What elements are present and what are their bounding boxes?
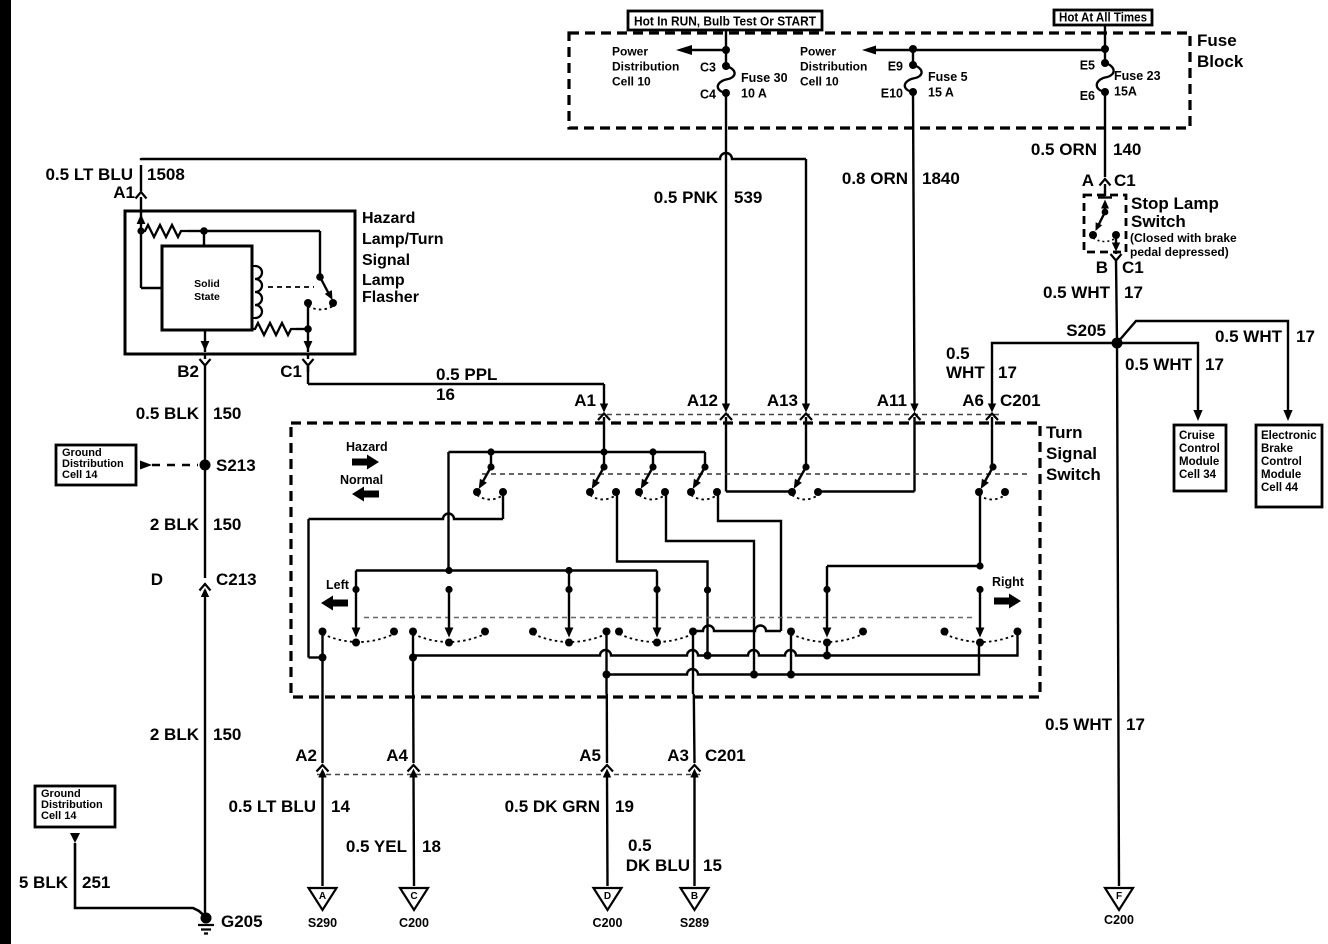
- label 0.5 BLK 150: [136, 404, 242, 423]
- svg-text:A5: A5: [579, 746, 601, 765]
- svg-text:Cell 10: Cell 10: [800, 75, 839, 89]
- svg-text:B: B: [1096, 258, 1108, 277]
- svg-text:E9: E9: [888, 60, 903, 74]
- switch contact set T1 (hazard feed): [473, 452, 507, 500]
- pin label C4: [700, 88, 716, 102]
- contact arc set B2: [409, 628, 489, 643]
- wire: 0.5 PPL 16 (flasher C1 to switch pin A1): [308, 366, 604, 404]
- dashed pivot line (top contacts): [482, 473, 1030, 475]
- svg-text:0.5 DK GRN: 0.5 DK GRN: [505, 797, 600, 816]
- pin A12: [687, 391, 732, 492]
- switch arm B2: [445, 586, 454, 647]
- svg-text:Cell 34: Cell 34: [1179, 469, 1217, 481]
- svg-text:C201: C201: [1000, 391, 1041, 410]
- svg-text:Electronic: Electronic: [1261, 430, 1317, 442]
- svg-text:Cruise: Cruise: [1179, 430, 1215, 442]
- svg-text:A11: A11: [877, 391, 907, 410]
- power distribution cell 10 label (left): [612, 45, 679, 89]
- wire: T1 right contact to left rail: [309, 492, 504, 658]
- svg-text:0.5: 0.5: [946, 344, 970, 363]
- hazard flasher label: [362, 210, 443, 306]
- switch arm B4: [653, 586, 662, 647]
- C201 dashed row (top): [598, 414, 1002, 416]
- svg-text:2 BLK: 2 BLK: [150, 725, 200, 744]
- svg-text:S290: S290: [308, 916, 337, 930]
- svg-text:Signal: Signal: [1046, 444, 1097, 463]
- label 0.5 WHT 17 (EBCM branch): [1215, 327, 1315, 346]
- wire: 5 BLK 251 (ground box to G205): [70, 833, 204, 916]
- fuse 5 value label: [928, 70, 968, 100]
- fuse F30 (C3-C4): [718, 62, 735, 97]
- pin A4: [386, 746, 419, 886]
- contact arc set B6: [941, 628, 1022, 643]
- svg-text:5 BLK: 5 BLK: [19, 873, 69, 892]
- connector pin B C1 (stop lamp): [1096, 252, 1144, 277]
- label 0.5 WHT 17 (bottom): [1045, 715, 1145, 734]
- wire: Hot In RUN feed down to fuse 30: [725, 30, 727, 66]
- stop lamp switch label: [1130, 194, 1237, 259]
- svg-text:0.5 WHT: 0.5 WHT: [1125, 355, 1193, 374]
- label 0.5 WHT 17 (cruise branch): [1125, 355, 1224, 374]
- connector pin A1 (flasher): [113, 183, 146, 211]
- wire: Hot At All Times feed down to fuse 23: [1104, 25, 1106, 63]
- resistor R2 (flasher): [252, 323, 312, 335]
- wire: line B (right-turn rail): [603, 641, 980, 679]
- connector C C200: [399, 888, 429, 930]
- fuse F5 (E9-E10): [905, 61, 922, 96]
- svg-text:pedal depressed): pedal depressed): [1130, 245, 1229, 259]
- svg-text:D: D: [604, 891, 611, 902]
- svg-text:0.5 YEL: 0.5 YEL: [346, 837, 407, 856]
- switch contact set T4: [687, 452, 721, 500]
- svg-text:State: State: [194, 291, 220, 303]
- label 0.5 ORN 140: [1031, 140, 1142, 159]
- svg-text:C1: C1: [1114, 171, 1136, 190]
- svg-text:C213: C213: [216, 570, 257, 589]
- wire: A4 rail down: [412, 632, 415, 764]
- wire: 0.5 ORN 140 (fuse E6 down to stop lamp A): [1104, 92, 1106, 177]
- svg-text:Hot At All Times: Hot At All Times: [1059, 11, 1147, 25]
- label 0.5 WHT 17 (A6 branch): [946, 344, 1017, 382]
- dashed link: ground box to S213: [140, 461, 198, 470]
- svg-text:Left: Left: [326, 578, 350, 592]
- pin A3 / C201 label: [667, 746, 745, 886]
- connector D C200: [593, 888, 623, 930]
- wire: hot at all times bus (E9/E5 feed): [862, 46, 1105, 66]
- fuse 23 value label: [1114, 69, 1161, 99]
- svg-text:G205: G205: [221, 912, 263, 931]
- svg-text:C1: C1: [1122, 258, 1144, 277]
- svg-text:Module: Module: [1261, 469, 1301, 481]
- ground distribution cell 14 box (lower): [35, 786, 115, 827]
- pin label E9: [888, 60, 903, 74]
- contact arc set B3: [529, 628, 611, 643]
- label 0.5 PNK 539: [654, 188, 763, 207]
- connector F C200: [1104, 888, 1134, 927]
- svg-text:Cell 44: Cell 44: [1261, 482, 1299, 494]
- svg-text:E10: E10: [881, 87, 903, 101]
- wire: 0.5 WHT 17 (S205 to EBCM): [1117, 321, 1293, 421]
- svg-text:Cell 14: Cell 14: [62, 469, 98, 481]
- node S205: [1066, 321, 1122, 349]
- svg-text:0.5 BLK: 0.5 BLK: [136, 404, 200, 423]
- svg-text:Normal: Normal: [340, 473, 383, 487]
- label 0.5 DK BLU 15: [626, 836, 722, 875]
- svg-text:B2: B2: [177, 362, 199, 381]
- wire: solid state down to B2 exit: [201, 330, 210, 352]
- svg-text:A13: A13: [767, 391, 798, 410]
- pin A13: [767, 391, 812, 467]
- switch contact set T2 (from A1): [586, 452, 620, 500]
- wire: A12 to T5 left contact: [726, 490, 795, 492]
- svg-text:Lamp/Turn: Lamp/Turn: [362, 231, 443, 248]
- label 0.5 PPL 16: [436, 365, 497, 404]
- connector D C213: [151, 570, 257, 918]
- svg-text:A12: A12: [687, 391, 718, 410]
- svg-text:Brake: Brake: [1261, 443, 1293, 455]
- svg-text:A2: A2: [295, 746, 317, 765]
- svg-text:Power: Power: [612, 45, 648, 59]
- switch arm B5: [823, 586, 832, 647]
- resistor R1 (flasher): [137, 225, 207, 237]
- label 0.5 DK GRN 19: [505, 797, 634, 816]
- svg-text:140: 140: [1113, 140, 1141, 159]
- switch arm B6: [976, 586, 985, 647]
- label 5 BLK 251: [19, 873, 111, 892]
- svg-text:0.5 ORN: 0.5 ORN: [1031, 140, 1097, 159]
- wire: 0.5 BLK 150 (B2 down to S213): [204, 404, 206, 465]
- svg-text:Distribution: Distribution: [612, 60, 679, 74]
- stop lamp switch contacts: [1089, 198, 1120, 252]
- pin A1 (turn signal switch): [574, 391, 610, 452]
- pin label E5: [1080, 59, 1095, 73]
- svg-text:150: 150: [213, 404, 241, 423]
- C201 dashed row (bottom): [317, 774, 702, 776]
- label 2 BLK 150 (upper): [150, 515, 242, 534]
- stop lamp switch box: [1084, 195, 1126, 252]
- node: fuse 5 tap junction: [909, 45, 917, 53]
- coil L1 (flasher): [252, 266, 262, 318]
- svg-text:2 BLK: 2 BLK: [150, 515, 200, 534]
- label 0.5 YEL 18: [346, 837, 441, 856]
- svg-text:251: 251: [82, 873, 110, 892]
- fuse block dashed outline: [569, 33, 1190, 128]
- pin A5: [579, 746, 613, 886]
- svg-text:15: 15: [703, 856, 722, 875]
- svg-text:C1: C1: [280, 362, 302, 381]
- svg-text:0.5 PNK: 0.5 PNK: [654, 188, 719, 207]
- svg-text:C200: C200: [593, 916, 623, 930]
- svg-text:Fuse 30: Fuse 30: [741, 71, 788, 85]
- svg-text:A1: A1: [574, 391, 596, 410]
- svg-text:1840: 1840: [922, 169, 960, 188]
- cruise control module box: [1174, 425, 1226, 491]
- wire: 0.5 WHT 17 (S205 left to pin A6): [992, 343, 1117, 404]
- wire: 0.5 PNK 539 (fuse C4 down to pin A12): [725, 93, 727, 404]
- svg-text:A: A: [319, 891, 326, 902]
- wire: bottom bus inside switch: [356, 452, 657, 590]
- wire: top bus inside switch: [449, 448, 706, 455]
- svg-text:S289: S289: [680, 916, 709, 930]
- label 0.5 LT BLU 1508: [45, 165, 184, 184]
- svg-text:E5: E5: [1080, 59, 1095, 73]
- pin B2 (flasher): [177, 354, 210, 404]
- left arrow: [321, 578, 350, 611]
- svg-text:C201: C201: [705, 746, 746, 765]
- svg-text:Fuse 5: Fuse 5: [928, 70, 968, 84]
- svg-text:17: 17: [998, 363, 1017, 382]
- svg-text:539: 539: [734, 188, 762, 207]
- wire: R1 junction to switch pivot (top strap): [204, 231, 320, 274]
- node: fuse 23 tap junction: [1101, 45, 1109, 53]
- node: fuse 30 tap junction: [722, 46, 730, 54]
- svg-text:A4: A4: [386, 746, 408, 765]
- solid state module box: [162, 246, 252, 330]
- svg-text:C3: C3: [700, 61, 716, 75]
- label 0.5 WHT 17 (below stop lamp): [1043, 283, 1143, 302]
- svg-text:Control: Control: [1261, 456, 1302, 468]
- wire: switch contact down to C1 exit: [304, 303, 313, 352]
- svg-text:Cell 10: Cell 10: [612, 75, 651, 89]
- svg-text:0.5: 0.5: [628, 836, 652, 855]
- contact arc set B1: [319, 628, 399, 643]
- svg-text:0.5 LT BLU: 0.5 LT BLU: [45, 165, 133, 184]
- wire: 2 BLK 150 (S213 to C213): [204, 465, 206, 578]
- contact arc set B4: [615, 628, 697, 643]
- svg-text:14: 14: [331, 797, 350, 816]
- dashed mech line (bottom contacts): [364, 617, 975, 619]
- svg-text:150: 150: [213, 725, 241, 744]
- svg-text:Module: Module: [1179, 456, 1219, 468]
- svg-text:Signal: Signal: [362, 252, 410, 269]
- pin label C3: [700, 61, 716, 75]
- wire: T6 left contact down (right lamp feed): [976, 492, 983, 570]
- wire: line A (left-turn rail): [409, 632, 1018, 662]
- wire: cross strap to right bottom switches: [827, 566, 980, 590]
- svg-text:Hot In RUN, Bulb Test Or START: Hot In RUN, Bulb Test Or START: [634, 14, 816, 29]
- wire: 0.8 ORN 1840 (fuse E10 down to pin A11): [913, 92, 915, 404]
- svg-text:A3: A3: [667, 746, 689, 765]
- svg-text:C: C: [410, 891, 417, 902]
- svg-text:Stop Lamp: Stop Lamp: [1131, 194, 1219, 213]
- wire: A5 rail down: [605, 632, 608, 764]
- wire: A1 entry inside flasher: [137, 212, 146, 231]
- svg-text:A1: A1: [113, 183, 135, 202]
- svg-text:Power: Power: [800, 45, 836, 59]
- hazard flasher box: [125, 211, 355, 354]
- pin label E6: [1080, 89, 1095, 103]
- svg-text:Flasher: Flasher: [362, 289, 419, 306]
- svg-text:0.5 PPL: 0.5 PPL: [436, 365, 497, 384]
- svg-text:0.8 ORN: 0.8 ORN: [842, 169, 908, 188]
- svg-text:15A: 15A: [1114, 85, 1137, 99]
- label 0.8 ORN 1840: [842, 169, 960, 188]
- svg-text:D: D: [151, 570, 163, 589]
- svg-text:S213: S213: [216, 456, 256, 475]
- flasher switch contacts: [304, 273, 337, 309]
- svg-text:Distribution: Distribution: [800, 60, 867, 74]
- svg-text:A6: A6: [962, 391, 984, 410]
- wire: T2 right contact jog down to line A: [617, 492, 712, 660]
- connector B S289: [680, 888, 709, 930]
- wire: A1 branch down to solid state: [141, 231, 162, 288]
- svg-text:1508: 1508: [147, 165, 185, 184]
- svg-text:Control: Control: [1179, 443, 1220, 455]
- svg-text:Solid: Solid: [194, 278, 220, 290]
- svg-text:18: 18: [422, 837, 441, 856]
- svg-text:F: F: [1116, 891, 1122, 902]
- svg-text:Fuse 23: Fuse 23: [1114, 69, 1161, 83]
- switch arm B1: [352, 586, 361, 647]
- svg-text:Switch: Switch: [1046, 465, 1101, 484]
- ground distribution cell 14 box (upper): [56, 445, 136, 485]
- connector A S290: [308, 888, 337, 930]
- pin label E10: [881, 87, 903, 101]
- node S213: [200, 456, 256, 475]
- svg-text:0.5 WHT: 0.5 WHT: [1043, 283, 1111, 302]
- wire: T5 right contact to A11: [818, 490, 915, 492]
- svg-text:17: 17: [1296, 327, 1315, 346]
- svg-text:E6: E6: [1080, 89, 1095, 103]
- fuse F23 (E5-E6): [1097, 59, 1114, 96]
- wire: 0.5 WHT 17 (S205 to cruise control module): [1117, 343, 1203, 421]
- wire: 0.5 LT BLU 1508 (flasher A1 up, across to pin A13): [141, 153, 806, 404]
- svg-text:C200: C200: [399, 916, 429, 930]
- turn signal switch dashed outline: [291, 423, 1040, 697]
- svg-text:0.5 LT BLU: 0.5 LT BLU: [228, 797, 316, 816]
- fuse 30 value label: [741, 71, 788, 101]
- svg-text:S205: S205: [1066, 321, 1106, 340]
- wire: A2 rail down: [319, 632, 327, 764]
- wire: R1 junction down to solid state top: [203, 231, 205, 246]
- svg-text:C200: C200: [1104, 913, 1134, 927]
- pin A2: [295, 746, 328, 886]
- wire: 0.5 WHT 17 (stop lamp B down to S205): [1116, 260, 1117, 343]
- svg-text:Right: Right: [992, 575, 1025, 589]
- wire: T4 right contact jog down to A3 rail: [693, 492, 781, 631]
- hazard/normal selector arrows: [340, 440, 388, 502]
- contact arc set B5: [787, 628, 867, 643]
- wire: 0.5 WHT 17 (S205 down to connector F): [1117, 343, 1119, 886]
- svg-text:17: 17: [1205, 355, 1224, 374]
- svg-text:Fuse: Fuse: [1197, 31, 1237, 50]
- svg-text:17: 17: [1124, 283, 1143, 302]
- pin C1 (flasher): [280, 354, 313, 381]
- wire: T3 right contact jog down to line B: [666, 492, 758, 679]
- svg-text:150: 150: [213, 515, 241, 534]
- svg-text:A: A: [1082, 171, 1094, 190]
- mech link dashes (coil to switch arm): [268, 286, 314, 288]
- svg-text:Hazard: Hazard: [362, 210, 415, 227]
- pin A11: [877, 391, 921, 492]
- label 2 BLK 150 (lower): [150, 725, 242, 744]
- wire: A3 rail down: [693, 631, 695, 764]
- label 0.5 LT BLU 14: [228, 797, 350, 816]
- svg-text:Switch: Switch: [1131, 212, 1186, 231]
- svg-text:B: B: [691, 891, 698, 902]
- svg-text:Cell 14: Cell 14: [41, 810, 77, 822]
- fuse block label: [1197, 31, 1244, 71]
- svg-text:Lamp: Lamp: [362, 272, 405, 289]
- svg-text:16: 16: [436, 385, 455, 404]
- right arrow: [992, 575, 1025, 609]
- svg-text:10 A: 10 A: [741, 87, 767, 101]
- wire: power distribution tap (left arrow) at fuse 30: [676, 45, 726, 55]
- switch contact set T3: [635, 452, 669, 500]
- wire: B5 left flank down to line B: [790, 632, 792, 675]
- svg-text:Turn: Turn: [1046, 423, 1083, 442]
- switch contact set T6 (from A6): [975, 463, 1009, 499]
- switch arm B3: [565, 586, 574, 647]
- svg-text:(Closed with brake: (Closed with brake: [1130, 231, 1237, 245]
- svg-text:15 A: 15 A: [928, 86, 954, 100]
- svg-text:Block: Block: [1197, 52, 1244, 71]
- pin A6 / C201 label: [962, 391, 1040, 467]
- svg-text:0.5 WHT: 0.5 WHT: [1045, 715, 1113, 734]
- label box: Hot At All Times: [1054, 10, 1152, 25]
- svg-text:17: 17: [1126, 715, 1145, 734]
- svg-text:Hazard: Hazard: [346, 440, 388, 454]
- power distribution cell 10 label (right): [800, 45, 867, 89]
- turn signal switch label: [1046, 423, 1101, 484]
- svg-text:0.5 WHT: 0.5 WHT: [1215, 327, 1283, 346]
- label box: Hot In RUN, Bulb Test Or START: [628, 11, 822, 30]
- wire: B5 contact to line A: [826, 643, 828, 656]
- svg-text:DK BLU: DK BLU: [626, 856, 690, 875]
- svg-text:C4: C4: [700, 88, 716, 102]
- connector pin A C1 (stop lamp): [1082, 171, 1136, 196]
- electronic brake control module box: [1256, 425, 1322, 507]
- svg-text:WHT: WHT: [946, 363, 985, 382]
- ground G205: [198, 912, 263, 934]
- switch contact set T5 (from A13): [788, 463, 822, 499]
- svg-text:19: 19: [615, 797, 634, 816]
